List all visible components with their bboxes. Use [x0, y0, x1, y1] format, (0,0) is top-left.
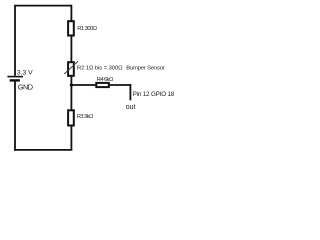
wire: R1 to R2	[70, 36, 72, 63]
resistor R1	[68, 21, 74, 35]
svg-text:R2 1Ω bis = 300Ω: R2 1Ω bis = 300Ω	[77, 66, 123, 72]
svg-text:Bumper Sensor: Bumper Sensor	[126, 66, 165, 72]
junction dot	[70, 83, 73, 86]
svg-text:Pin 12 GPIO 18: Pin 12 GPIO 18	[133, 91, 175, 98]
resistor R2 (variable)	[68, 62, 74, 76]
wire: output drop	[129, 84, 131, 100]
svg-text:R4 6kΩ: R4 6kΩ	[97, 77, 114, 83]
wire: horizontal branch to R4 and out corner	[71, 84, 131, 86]
svg-text:3.3 V: 3.3 V	[17, 69, 33, 76]
wire: top horizontal rail	[14, 5, 71, 7]
wire: right vertical, top rail to R1	[70, 5, 72, 22]
battery negative plate (short thick)	[10, 79, 20, 81]
wire: bottom horizontal rail	[14, 149, 72, 151]
wire: R2 to junction to R3	[70, 76, 72, 110]
battery positive plate (long thin)	[7, 76, 23, 78]
wire: left vertical (battery - down to bottom rail)	[14, 81, 16, 150]
wire: R3 to bottom rail	[70, 126, 72, 150]
resistor R4	[96, 83, 109, 87]
svg-text:R3 3kΩ: R3 3kΩ	[77, 114, 94, 120]
resistor R3	[68, 110, 74, 125]
svg-text:R1 300Ω: R1 300Ω	[77, 26, 97, 32]
R2 wiper diagonal	[64, 61, 78, 74]
wire: left vertical (battery + up to top rail)	[14, 6, 16, 76]
svg-text:out: out	[126, 104, 136, 111]
svg-text:GND: GND	[18, 82, 33, 91]
